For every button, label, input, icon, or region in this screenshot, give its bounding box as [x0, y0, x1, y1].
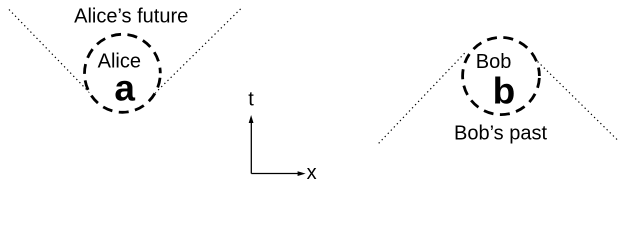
svg-text:b: b: [493, 70, 516, 111]
svg-text:a: a: [114, 67, 135, 108]
svg-text:t: t: [248, 89, 254, 111]
svg-text:x: x: [307, 162, 317, 184]
svg-text:Alice’s future: Alice’s future: [74, 6, 188, 28]
svg-text:Bob’s past: Bob’s past: [454, 123, 547, 145]
